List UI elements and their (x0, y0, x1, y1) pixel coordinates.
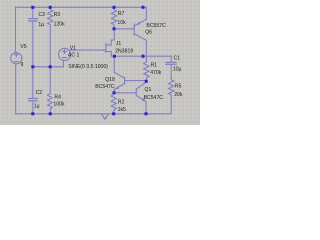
transistor Q1 (136, 82, 146, 102)
transistor Q18 (mirrored) (114, 72, 124, 89)
node dot A C2 (31, 65, 34, 68)
wire left column bottom (15, 64, 17, 114)
svg-text:1µ: 1µ (34, 103, 40, 109)
voltage source V5 (11, 53, 22, 64)
wire Q18 base to R1 bottom node (125, 80, 147, 83)
svg-text:Q6: Q6 (145, 30, 152, 36)
wire C3 to node A (32, 21, 34, 67)
svg-text:BC547C: BC547C (95, 84, 115, 90)
svg-text:BC547C: BC547C (144, 95, 164, 101)
wire Q6 emitter (145, 7, 147, 19)
wire C1 to R5 (170, 65, 172, 78)
wire R2 bottom (113, 111, 115, 114)
resistor R1 (144, 62, 149, 81)
svg-text:AC 1: AC 1 (68, 52, 80, 58)
wire C2 bottom (32, 101, 34, 114)
node dot output Q6 (142, 55, 145, 58)
wire top rail V+ (16, 6, 147, 8)
wire node A to C2 (32, 67, 34, 98)
svg-text:R3: R3 (54, 12, 61, 18)
svg-text:SINE(0 3.5 1000): SINE(0 3.5 1000) (68, 64, 108, 70)
transistor Q6 (134, 19, 146, 40)
wire V1 to J1 gate (68, 49, 106, 51)
labels (20, 11, 183, 113)
svg-text:10µ: 10µ (173, 67, 182, 73)
wire bottom rail ground (16, 113, 172, 115)
svg-text:R1: R1 (151, 62, 158, 68)
svg-text:J1: J1 (116, 41, 122, 47)
junction dots (31, 6, 147, 116)
capacitor C2 (29, 99, 37, 101)
svg-text:100k: 100k (53, 102, 65, 108)
svg-text:20k: 20k (174, 92, 183, 98)
node dot R1 bottom (145, 80, 148, 83)
svg-text:R4: R4 (54, 94, 61, 100)
svg-text:1k5: 1k5 (118, 107, 126, 113)
svg-text:BC557C: BC557C (146, 23, 166, 29)
svg-text:R2: R2 (118, 99, 125, 105)
node dot gnd R2 (112, 112, 115, 115)
svg-text:Q1: Q1 (145, 87, 152, 93)
svg-text:9: 9 (21, 62, 24, 68)
svg-text:120k: 120k (54, 21, 66, 27)
node dot gnd R4 (49, 112, 52, 115)
jfet J1 (102, 40, 114, 56)
resistor R5 (169, 78, 174, 99)
resistor R3 (48, 7, 53, 26)
svg-text:C1: C1 (174, 55, 181, 61)
svg-text:2N3819: 2N3819 (115, 48, 133, 54)
wire Q18 collector (113, 56, 115, 72)
svg-text:C3: C3 (38, 12, 45, 18)
wire R5 bottom (170, 99, 172, 114)
svg-text:470k: 470k (150, 70, 162, 76)
node dot A R3R4 (49, 65, 52, 68)
wire node A horizontal (33, 66, 64, 68)
wire base Q6 (114, 28, 134, 30)
wire R3 to node A (49, 27, 51, 67)
node dot top rail Q6 (142, 6, 145, 9)
node dot Q1 base R2 (113, 91, 116, 94)
wire C1 top (170, 56, 172, 62)
node dot gnd C2 (31, 112, 34, 115)
node dot top rail R3 (49, 6, 52, 9)
resistor R7 (111, 7, 116, 26)
wire V1 bottom stub (62, 60, 64, 66)
wire J1 drain to R7 node (113, 29, 115, 40)
wire C3 top (32, 7, 34, 18)
svg-text:V5: V5 (20, 44, 26, 50)
node dot J1 source (113, 55, 116, 58)
capacitor C1 (166, 62, 176, 64)
wire left column top (15, 7, 17, 52)
svg-text:C2: C2 (36, 90, 43, 96)
voltage source V1 (59, 48, 71, 60)
svg-text:R5: R5 (175, 84, 182, 90)
wire R7 bottom to node (113, 27, 115, 29)
resistor R4 (48, 93, 53, 109)
ground (102, 114, 109, 119)
wire Q18 emitter down (113, 89, 115, 92)
node dot R7 J1 drain (113, 27, 116, 30)
wire output node (114, 55, 171, 57)
svg-text:V1: V1 (70, 46, 76, 52)
svg-text:10k: 10k (117, 20, 126, 26)
svg-text:1µ: 1µ (38, 22, 44, 28)
wire R4 bottom (49, 109, 51, 114)
wire node A to R4 (49, 67, 51, 94)
wire R1 top (145, 56, 147, 62)
svg-text:R7: R7 (118, 11, 125, 17)
svg-text:Q18: Q18 (105, 77, 115, 83)
node dot gnd Q1 (145, 112, 148, 115)
capacitor C3 (29, 19, 37, 21)
wire Q1 base (114, 92, 136, 94)
wire Q1 emitter (145, 102, 147, 114)
node dot top rail R7 (113, 6, 116, 9)
node dot top rail C3 (31, 6, 34, 9)
wire Q6 collector (145, 40, 147, 56)
resistor R2 (111, 93, 116, 111)
